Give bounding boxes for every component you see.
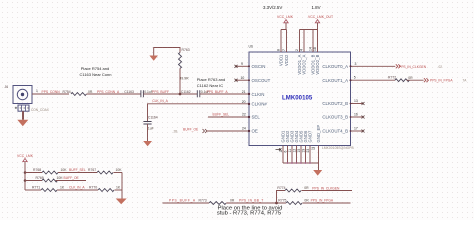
op IC U6 LMK00105 xyxy=(249,45,354,150)
wire ground to R763 xyxy=(154,48,180,56)
wire PPS_BUFF xyxy=(143,93,197,95)
svg-text:VCC_LMK: VCC_LMK xyxy=(277,15,294,19)
svg-text:GND_EP: GND_EP xyxy=(316,125,321,143)
svg-text:10K: 10K xyxy=(116,168,123,172)
ground (pull rail) xyxy=(116,199,127,205)
svg-text:02: 02 xyxy=(439,65,443,69)
svg-text:7: 7 xyxy=(282,49,286,51)
svg-text:CLKOUT4_B: CLKOUT4_B xyxy=(322,129,348,134)
svg-text:12: 12 xyxy=(293,149,297,153)
svg-text:Place R763 and: Place R763 and xyxy=(197,77,225,82)
svg-text:Place R754 and: Place R754 and xyxy=(81,66,109,71)
svg-text:PPS_IN_CLKGEN: PPS_IN_CLKGEN xyxy=(312,186,340,190)
wire J6 shield to ground xyxy=(23,111,24,120)
svg-text:2B: 2B xyxy=(174,130,178,134)
wire R772 to off-page xyxy=(407,79,424,81)
svg-text:VCC_LMK_OUT: VCC_LMK_OUT xyxy=(308,15,333,19)
svg-text:C1163 Near Conn: C1163 Near Conn xyxy=(80,72,112,77)
junction row1 xyxy=(24,171,27,174)
off-page connector BUFF_OE xyxy=(203,129,208,133)
svg-text:0R: 0R xyxy=(230,199,235,203)
svg-text:11: 11 xyxy=(288,149,292,153)
wire row3 xyxy=(25,189,41,191)
svg-text:J6: J6 xyxy=(5,85,9,89)
svg-text:PPS_BUFF_A: PPS_BUFF_A xyxy=(169,199,196,203)
svg-text:0R: 0R xyxy=(88,90,93,94)
svg-text:R774: R774 xyxy=(277,186,285,190)
svg-text:10: 10 xyxy=(241,76,245,80)
svg-text:4: 4 xyxy=(300,49,304,51)
wire PPS_IN_CLKGEN bottom xyxy=(302,190,353,192)
off-page connector PPS_IN_FPGA xyxy=(424,78,429,82)
ground (R763 termination) xyxy=(149,56,158,61)
svg-text:9: 9 xyxy=(241,62,243,66)
wire VCC_LMK to VDD pins xyxy=(281,23,287,53)
wire PPS_CONN (J6 to R754) xyxy=(32,93,69,95)
wire CLK_IN_A row3 xyxy=(57,189,98,191)
svg-text:C1164: C1164 xyxy=(148,116,158,120)
svg-text:stub - R773, R774, R775: stub - R773, R774, R775 xyxy=(217,211,281,217)
svg-text:1: 1 xyxy=(36,89,38,93)
wire gnd rail right xyxy=(121,173,123,199)
pin CLKOUT3_B no-connect xyxy=(351,116,364,118)
svg-text:8: 8 xyxy=(277,49,281,51)
svg-text:CLK_IN_A: CLK_IN_A xyxy=(69,186,85,190)
svg-text:CLKIN: CLKIN xyxy=(252,92,265,97)
svg-text:3.3V/2.5V: 3.3V/2.5V xyxy=(263,5,282,10)
svg-text:PPS_IN_CLKGEN: PPS_IN_CLKGEN xyxy=(399,65,427,69)
svg-text:GND7: GND7 xyxy=(308,130,313,143)
svg-text:10K: 10K xyxy=(57,176,64,180)
svg-text:VDD2: VDD2 xyxy=(284,54,289,66)
svg-text:BUFF_SEL: BUFF_SEL xyxy=(213,113,230,117)
svg-text:17: 17 xyxy=(354,127,358,131)
svg-text:22: 22 xyxy=(242,113,246,117)
wire PPS_IN_BB_T xyxy=(226,202,286,204)
wire PPS_IN_FPGA bottom xyxy=(303,202,351,204)
svg-text:CON_COAX: CON_COAX xyxy=(31,108,50,112)
svg-text:21: 21 xyxy=(242,90,246,94)
svg-text:23: 23 xyxy=(306,149,310,153)
wire row3 to gnd rail xyxy=(115,189,123,191)
connector J6 xyxy=(5,85,50,112)
svg-text:LMK00105SQ/NOPB: LMK00105SQ/NOPB xyxy=(322,146,354,150)
wire GND pins to rail xyxy=(283,146,319,164)
wire row1 to gnd rail xyxy=(114,172,123,174)
svg-text:0R: 0R xyxy=(304,186,309,190)
svg-text:SEL: SEL xyxy=(252,115,261,120)
off-page connector PPS_IN_CLKGEN xyxy=(396,64,401,68)
wire VCC_LMK_OUT to VDDO pins xyxy=(300,23,318,53)
junction R763/main xyxy=(179,93,182,96)
wire BUFF_SEL row1 xyxy=(58,172,97,174)
svg-text:CLKOUT3_B: CLKOUT3_B xyxy=(322,115,348,120)
no-connect mark DAP xyxy=(276,148,282,150)
svg-text:LMK00105: LMK00105 xyxy=(282,96,313,102)
pin OSCIN no-connect xyxy=(236,65,249,67)
svg-text:PPS_BUFF_A: PPS_BUFF_A xyxy=(207,90,229,94)
svg-text:R754: R754 xyxy=(63,90,71,94)
svg-text:10K: 10K xyxy=(61,168,68,172)
svg-text:VDDO2_B: VDDO2_B xyxy=(315,54,320,74)
svg-text:1K: 1K xyxy=(116,186,121,190)
ground (C1164) xyxy=(143,141,152,146)
svg-text:0R: 0R xyxy=(304,199,309,203)
svg-text:PPS_IN_BB_T: PPS_IN_BB_T xyxy=(239,199,264,203)
svg-text:PPS_IN_FPGA: PPS_IN_FPGA xyxy=(311,199,334,203)
svg-text:PPS_BUFF: PPS_BUFF xyxy=(152,90,169,94)
svg-text:R772: R772 xyxy=(388,76,396,80)
svg-text:OE: OE xyxy=(252,129,258,134)
pin junction dots xyxy=(248,65,352,132)
svg-text:CLK_IN_A: CLK_IN_A xyxy=(152,99,168,103)
svg-text:VDD1: VDD1 xyxy=(278,54,283,66)
svg-text:1K: 1K xyxy=(60,186,65,190)
svg-text:CLKOUT0_A: CLKOUT0_A xyxy=(322,64,348,69)
wire PPS_BUFF_A to U6 pin 21 xyxy=(200,93,249,95)
pin CLKOUT2_B no-connect xyxy=(351,103,364,105)
svg-text:C1163: C1163 xyxy=(124,90,134,94)
svg-text:1: 1 xyxy=(279,151,283,153)
svg-text:1.8V: 1.8V xyxy=(312,5,321,10)
svg-text:OSCIN: OSCIN xyxy=(252,64,266,69)
svg-text:1uF: 1uF xyxy=(148,126,154,130)
svg-text:18: 18 xyxy=(313,47,317,51)
svg-text:14: 14 xyxy=(309,47,313,51)
wire PPS_CONN_A xyxy=(87,93,141,95)
wire C1164 to ground xyxy=(147,124,149,141)
svg-text:OSCOUT: OSCOUT xyxy=(252,78,271,83)
wire branch up xyxy=(277,191,286,204)
svg-text:C1162: C1162 xyxy=(181,90,191,94)
junction row2 xyxy=(24,179,27,182)
svg-text:R773: R773 xyxy=(199,199,207,203)
wire CLK_IN_A to U6 pin 20 xyxy=(148,104,250,122)
svg-text:R767: R767 xyxy=(88,168,96,172)
wire PPS_BUFF_A bottom line xyxy=(163,202,210,204)
svg-text:20: 20 xyxy=(242,100,246,104)
wire row1 left xyxy=(25,172,42,174)
svg-text:CLKIN#: CLKIN# xyxy=(252,101,268,106)
svg-text:2: 2 xyxy=(295,49,299,51)
svg-text:CLKOUT1_A: CLKOUT1_A xyxy=(322,78,348,83)
pin OSCOUT no-connect xyxy=(236,79,249,81)
svg-text:BUFF_OE: BUFF_OE xyxy=(183,128,199,132)
svg-text:R768: R768 xyxy=(33,168,41,172)
ground (U6) xyxy=(313,170,322,176)
svg-text:19: 19 xyxy=(302,149,306,153)
svg-text:R770: R770 xyxy=(89,186,97,190)
wire BUFF_SEL to U6 pin 22 xyxy=(208,116,249,118)
svg-text:BUFF_SEL: BUFF_SEL xyxy=(69,168,86,172)
svg-text:0R: 0R xyxy=(408,76,413,80)
wire R763 to line xyxy=(179,68,181,94)
svg-text:49.9R: 49.9R xyxy=(180,77,190,81)
wire BUFF_OE stub xyxy=(56,180,87,182)
svg-text:24: 24 xyxy=(242,127,246,131)
svg-text:PPS_IN_FPGA: PPS_IN_FPGA xyxy=(430,79,453,83)
wire row2 xyxy=(25,180,42,182)
svg-text:R763: R763 xyxy=(182,48,190,52)
svg-text:R775: R775 xyxy=(278,199,286,203)
wire BUFF_OE to U6 pin 24 xyxy=(207,130,249,132)
svg-text:VDDO2_A: VDDO2_A xyxy=(301,54,306,74)
svg-text:3: 3 xyxy=(355,62,357,66)
svg-text:13: 13 xyxy=(354,99,358,103)
svg-text:VCC_LMK: VCC_LMK xyxy=(17,154,34,158)
svg-text:PPS_CONN_A: PPS_CONN_A xyxy=(97,90,120,94)
pin CLKOUT4_B no-connect xyxy=(351,130,364,132)
junction dots gnd rail xyxy=(287,162,289,164)
svg-text:15: 15 xyxy=(297,149,301,153)
svg-text:25: 25 xyxy=(311,147,315,151)
svg-text:PPS_CONN: PPS_CONN xyxy=(42,90,61,94)
junction bottom xyxy=(275,202,278,205)
svg-text:CLKOUT2_B: CLKOUT2_B xyxy=(322,101,348,106)
wire rail to ground xyxy=(318,163,320,170)
ground (J6) xyxy=(17,120,28,126)
svg-text:5: 5 xyxy=(354,75,356,79)
svg-text:R771: R771 xyxy=(32,186,40,190)
svg-text:6: 6 xyxy=(284,151,288,153)
svg-text:C1162 Near IC: C1162 Near IC xyxy=(197,83,223,88)
wire VCC rail xyxy=(24,162,26,191)
svg-text:U6: U6 xyxy=(249,45,253,49)
svg-text:16: 16 xyxy=(354,113,358,117)
svg-text:BUFF_OE: BUFF_OE xyxy=(64,176,80,180)
